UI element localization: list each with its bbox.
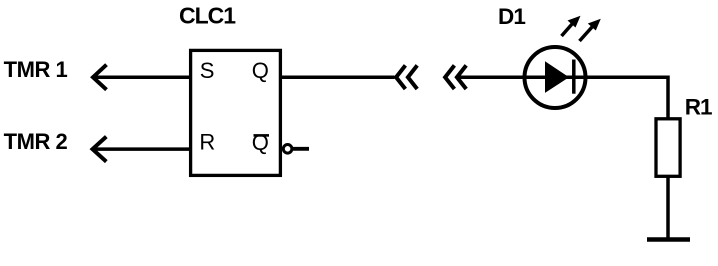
off-page connector (right, chevrons) — [445, 65, 466, 89]
LED D1 circle — [525, 47, 586, 108]
inversion bubble on Q-bar — [283, 145, 292, 154]
pin label Q-bar — [252, 130, 269, 155]
svg-text:D1: D1 — [498, 4, 525, 29]
svg-text:Q: Q — [252, 58, 269, 83]
latch U1 (CLC1 body) — [191, 50, 281, 175]
LED emission arrow 1 — [562, 16, 581, 36]
svg-text:TMR 2: TMR 2 — [4, 129, 68, 154]
input arrow TMR 1 — [93, 65, 107, 90]
ground — [647, 237, 690, 242]
input arrow TMR 2 — [93, 137, 107, 162]
wire LED anode to resistor corner — [458, 75, 668, 79]
resistor R1 body — [656, 119, 680, 177]
svg-text:S: S — [200, 58, 215, 83]
wire Q output — [281, 75, 395, 79]
wire Q-bar stub — [292, 147, 309, 151]
LED cathode bar — [572, 60, 576, 94]
off-page connector (left, chevrons) — [396, 65, 417, 89]
svg-text:R1: R1 — [685, 94, 712, 119]
wire resistor to ground — [666, 176, 670, 239]
wire R input — [93, 147, 191, 151]
wire down to resistor — [666, 76, 670, 120]
svg-text:R: R — [199, 130, 215, 155]
svg-text:TMR 1: TMR 1 — [4, 57, 68, 82]
svg-text:Q: Q — [252, 130, 269, 155]
LED diode triangle — [545, 61, 569, 93]
LED emission arrow 2 — [580, 19, 601, 41]
wire S input — [93, 75, 190, 79]
svg-text:CLC1: CLC1 — [179, 2, 236, 28]
